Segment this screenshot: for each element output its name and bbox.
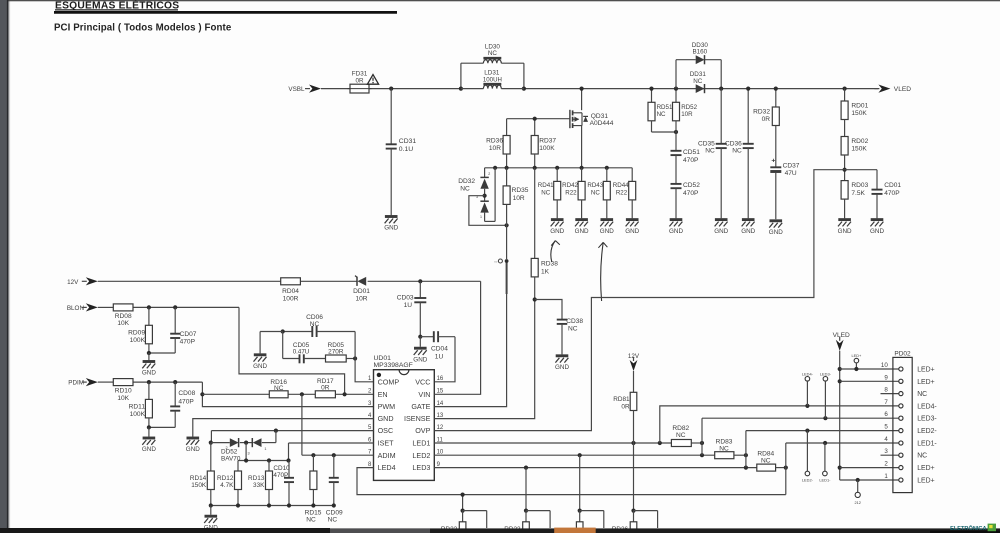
node CD03-CD04 junction [418,335,422,339]
ground GND under CD01 [871,218,884,221]
svg-text:470P: 470P [178,398,194,405]
wire 12V rail [98,280,281,282]
resistor RD84 NC [757,464,776,471]
svg-text:VLED: VLED [894,86,911,93]
svg-text:33K: 33K [253,482,265,489]
svg-text:GND: GND [870,228,884,235]
resistor RD01 150K [844,89,846,101]
capacitor CD38 NC [535,300,562,320]
svg-text:RD02: RD02 [851,138,868,145]
resistor RD23 [524,509,528,513]
svg-text:VSBL: VSBL [288,86,305,93]
svg-text:RD51: RD51 [657,104,673,111]
svg-text:RD84: RD84 [757,451,774,458]
title thick rule [54,11,397,14]
svg-text:RD08: RD08 [115,313,132,320]
wire LD31 row segments [461,88,484,90]
wire pin5 LED2- row [746,430,899,432]
svg-text:CD07: CD07 [180,331,197,338]
wire QD31 gate line [507,118,570,120]
wire LED4 route pin8 [357,468,786,495]
svg-text:GATE: GATE [411,402,430,411]
svg-text:LED3: LED3 [412,463,430,472]
svg-text:10R: 10R [489,145,501,152]
ground GND under CD03 [419,337,421,347]
orange highlight RD24 [554,528,596,533]
svg-text:CD31: CD31 [399,138,417,145]
svg-text:RD37: RD37 [539,137,556,144]
svg-text:GND: GND [142,370,156,377]
resistor RD43 NC [606,168,608,182]
svg-text:7: 7 [884,399,888,406]
node CD08 tap [173,380,177,384]
capacitor CD31 0.1U [390,89,392,145]
wire pin3 NC stub [881,454,899,456]
svg-text:RD03: RD03 [851,182,868,189]
svg-text:10: 10 [881,362,888,369]
svg-text:0R: 0R [621,403,630,410]
svg-text:1: 1 [264,447,266,451]
wire CD04 to VCC [434,337,455,382]
wire PDIM vertical to EN and PWM [202,382,373,407]
wire LED3 row pin9 [434,467,757,469]
svg-text:ELETRÔNICA: ELETRÔNICA [950,524,986,532]
node RD84 right junction [784,466,788,470]
capacitor CD09 NC [333,455,335,478]
svg-text:RD04: RD04 [282,288,299,295]
diode DD01 10R [357,277,366,286]
svg-text:RD13: RD13 [248,475,265,482]
svg-text:10R: 10R [681,111,693,118]
svg-text:RD32: RD32 [753,109,770,116]
ground GND under CD38 [556,354,569,357]
ground GND under CD52 [670,218,683,221]
wire RD11-CD08 join [149,426,175,428]
ground GND under RD41 [551,218,564,221]
wire source rail [485,167,633,169]
svg-text:10K: 10K [117,395,129,402]
svg-text:GND: GND [769,229,783,236]
resistor RD83 NC [715,452,734,459]
wire ADIM row [302,454,374,456]
svg-text:GND: GND [378,414,394,423]
resistor RD37 100K [534,119,536,136]
wire RD83 vertical link [745,431,747,468]
node COMP junction [353,356,357,360]
svg-text:ISET: ISET [378,439,395,448]
svg-text:LED2-: LED2- [802,477,814,482]
svg-text:LED4-: LED4- [917,403,937,410]
ground GND under CD37 [770,219,783,222]
wire bottom rail [211,505,334,507]
svg-text:NC: NC [693,78,703,85]
wire pin1 row [840,479,899,481]
scan left edge bar [0,0,7,533]
scan top edge line [9,0,1000,1]
svg-text:RD10: RD10 [115,388,132,395]
svg-text:PCI Principal ( Todos Modelos: PCI Principal ( Todos Modelos ) Fonte [54,22,232,33]
svg-text:RD44: RD44 [613,182,629,189]
bottom black strip [0,528,1000,533]
svg-text:470P: 470P [884,190,900,197]
svg-text:7.5K: 7.5K [851,190,865,197]
wire VSBL rail [321,88,350,90]
node EN-BLON junction [343,392,347,396]
svg-text:5: 5 [884,424,888,431]
svg-text:RD52: RD52 [681,104,697,111]
svg-text:CD51: CD51 [683,149,700,156]
connector PD02 pin 6 [899,416,903,420]
ground GND under CD31 [385,215,398,218]
svg-text:VLED: VLED [833,332,850,339]
svg-text:4.7K: 4.7K [220,482,234,489]
svg-text:NC: NC [568,325,578,332]
wire GND pin4 route [193,419,374,437]
svg-text:470P: 470P [273,472,288,479]
wire pin8 NC stub [881,393,899,395]
svg-text:VCC: VCC [415,377,430,386]
svg-text:LED1: LED1 [412,439,430,448]
wire DD52 center down [245,443,247,461]
svg-text:RD43: RD43 [587,182,603,189]
svg-text:GND: GND [253,363,267,370]
wire VIN route [434,281,480,394]
svg-text:BLON: BLON [67,305,85,312]
svg-text:NC: NC [732,148,742,155]
svg-text:CD08: CD08 [178,390,195,397]
svg-text:DD32: DD32 [458,178,475,185]
svg-text:100R: 100R [283,296,299,303]
node CD07 tap [173,305,177,309]
svg-text:1: 1 [884,473,888,480]
svg-text:CD06: CD06 [306,314,323,321]
svg-text:150K: 150K [191,482,207,489]
svg-text:150K: 150K [851,110,867,117]
annotation arrow up 1 [551,241,556,262]
svg-text:470P: 470P [683,190,699,197]
resistor RD82 NC [671,440,691,447]
ground GND under RD11 [143,437,156,440]
wire RD23 drop [525,468,527,511]
wire OSC row [211,430,373,432]
svg-text:LED4-: LED4- [802,371,814,376]
svg-text:0R: 0R [762,116,771,123]
svg-text:12V: 12V [67,279,79,286]
svg-text:RD42: RD42 [562,182,578,189]
resistor RD44 R22 [631,168,633,182]
wire ISET row [289,442,374,444]
svg-text:GND: GND [714,228,728,235]
wire RD84 vertical link [785,443,787,495]
svg-text:NC: NC [657,111,666,118]
op-amp U: IC UD01 MP3398AGF body [374,370,435,481]
svg-text:10R: 10R [355,296,367,303]
node RD16-RD17 junction [300,392,304,396]
svg-text:R22: R22 [616,189,628,196]
svg-text:1: 1 [480,215,482,219]
svg-text:NC: NC [917,453,927,460]
svg-text:CD37: CD37 [783,163,800,170]
capacitor CD04 1U [420,336,434,338]
svg-text:100K: 100K [130,337,146,344]
capacitor CD35 NC [720,89,722,144]
wire RD22 drop [462,495,464,511]
resistor RD09 100K [148,307,150,325]
wire BLON row [98,306,114,308]
test point LED+ top [854,358,859,363]
svg-text:470P: 470P [683,157,699,164]
svg-text:CD35: CD35 [698,140,715,147]
ground GND under CD36 [742,218,755,221]
svg-text:10R: 10R [513,195,525,202]
svg-text:RD12: RD12 [217,475,234,482]
svg-text:UD01: UD01 [374,355,392,362]
svg-text:NC: NC [761,458,771,465]
node CD06 left junction [281,329,285,333]
resistor RD17 0R [315,391,335,398]
connector PD02 body [893,357,912,492]
wire DD32 mid tap [469,196,507,226]
svg-text:LED4: LED4 [378,463,396,472]
resistor RD02 150K [841,137,848,156]
svg-text:NC: NC [460,186,470,193]
capacitor CD08 470P [174,382,176,406]
wire OSC corner down [210,431,212,443]
connector PD02 pin 4 [899,441,903,445]
svg-text:LED1-: LED1- [917,441,937,448]
svg-text:GND: GND [838,228,852,235]
wire pin2 row [840,467,899,469]
svg-text:CD38: CD38 [566,318,583,325]
connector PD02 pin 8 [899,392,903,396]
svg-text:RD41: RD41 [538,182,554,189]
svg-text:EN: EN [378,390,388,399]
svg-text:0R: 0R [355,77,364,84]
svg-text:CD52: CD52 [683,182,700,189]
ground GND pin4 [187,437,200,440]
svg-text:RD14: RD14 [190,475,207,482]
node RD83 right junction [744,453,748,457]
resistor RD10 10K [113,379,133,386]
resistor RD15 NC [312,455,314,471]
resistor RD35 10R [506,168,508,186]
svg-text:GND: GND [741,228,755,235]
resistor RD42 R22 [581,168,583,182]
wire COMP to pin1 [355,359,373,382]
test point LED3- [823,377,828,382]
svg-text:LED1-: LED1- [819,477,831,482]
wire pin10 row [840,368,899,370]
svg-text:CD04: CD04 [431,346,448,353]
svg-text:LED+: LED+ [917,465,934,472]
wire RD51 bottom [652,131,677,133]
resistor RD11 100K [148,382,150,399]
svg-text:NC: NC [328,516,338,523]
title thin underline [55,9,178,11]
svg-text:GND: GND [669,228,683,235]
svg-text:NC: NC [488,50,498,57]
svg-text:GND: GND [550,228,564,235]
svg-text:OSC: OSC [378,426,394,435]
capacitor CD07 470P [174,307,176,333]
wire CD06 right leg [354,332,356,359]
svg-text:GND: GND [186,446,200,453]
node RD11 tap [147,380,151,384]
svg-text:NC: NC [274,385,284,392]
node VLED output [843,87,847,91]
node RD02-RD03 junction [843,168,847,172]
resistor RD52 10R [675,89,677,103]
connector PD02 pin 5 [899,429,903,433]
capacitor CD52 470P [671,183,682,185]
ground GND under RD42 [575,218,588,221]
svg-text:2: 2 [488,172,490,176]
svg-text:0.1U: 0.1U [399,146,413,153]
svg-text:TP: TP [494,260,498,264]
svg-text:RD11: RD11 [129,404,146,411]
ground GND under RD43 [601,218,614,221]
node junction VSBL-CD31 [389,87,393,91]
svg-text:16: 16 [437,376,444,382]
svg-text:R22: R22 [565,189,577,196]
diode DD52 BAV70 [211,442,230,444]
svg-text:QD31: QD31 [591,113,609,120]
svg-text:LED3-: LED3- [917,416,937,423]
svg-text:PWM: PWM [378,402,396,411]
wire RD24 drop [579,455,581,510]
wire LED1 row pin11 [434,442,671,444]
connector PD02 pin 9 [899,379,903,383]
svg-text:0R: 0R [321,385,330,392]
resistor RD04 100R [281,278,301,285]
svg-text:LED+: LED+ [917,478,934,485]
wire OVP route [434,170,844,431]
svg-text:1U: 1U [435,353,444,360]
resistor RD51 NC [651,89,653,103]
wire BLON to EN [239,307,345,394]
svg-text:NC: NC [310,321,320,328]
node RD82 right junction [700,441,704,445]
ground GND under RD09 [143,360,156,363]
svg-text:LED2: LED2 [412,451,430,460]
wire RD09-CD07 join [149,352,175,354]
svg-text:GND: GND [142,446,156,453]
svg-text:1U: 1U [404,302,413,309]
resistor RD24 [578,509,582,513]
svg-text:GND: GND [625,228,639,235]
svg-text:NC: NC [917,391,927,398]
svg-text:MP3398AGF: MP3398AGF [374,362,413,369]
wire DD30 loop legs [675,60,677,89]
test point LED1- [823,471,828,476]
resistor RD36 10R [506,119,508,136]
svg-text:LED+: LED+ [851,353,862,358]
svg-text:PD02: PD02 [894,351,911,358]
wire CD06 to GND [260,331,283,333]
svg-text:CD01: CD01 [884,182,901,189]
svg-text:2: 2 [884,461,888,468]
svg-text:GND: GND [555,364,569,371]
svg-text:RD35: RD35 [512,187,529,194]
svg-text:RD83: RD83 [716,438,733,445]
svg-text:LED+: LED+ [917,367,934,374]
capacitor CD03 1U [419,281,421,298]
svg-text:NC: NC [719,445,729,452]
node test point on gate line [505,259,509,263]
svg-text:GND: GND [600,228,614,235]
svg-text:RD82: RD82 [672,425,689,432]
connector PD02 pin 1 [899,478,903,482]
capacitor CD36 NC [747,89,749,144]
svg-text:RD01: RD01 [851,102,868,109]
svg-text:9: 9 [884,374,888,381]
svg-text:GND: GND [575,228,589,235]
svg-text:47U: 47U [785,170,797,177]
svg-text:GND: GND [413,356,427,363]
wire ISENSE route [434,300,534,419]
wire GATE route [434,261,506,407]
svg-text:COMP: COMP [378,377,400,386]
resistor RD81 0R [633,371,635,392]
svg-text:1K: 1K [541,268,550,275]
svg-text:RD09: RD09 [128,330,145,337]
wire RD82 to RD83 vertical [701,418,703,455]
svg-text:470P: 470P [180,338,196,345]
fuse FD31 [350,84,369,93]
svg-text:NC: NC [541,189,550,196]
node CD03 tap [418,279,422,283]
resistor RD14 150K [210,443,212,471]
svg-text:RD36: RD36 [486,137,503,144]
test point LED4- [805,377,810,382]
capacitor CD01 470P [845,169,877,171]
svg-text:+: + [771,157,775,164]
svg-text:OVP: OVP [415,426,430,435]
svg-text:212: 212 [854,500,861,505]
svg-text:DD01: DD01 [353,288,370,295]
test point 212 [856,478,860,482]
transistor QD31 A0D444 [581,89,583,111]
connector PD02 pin 7 [899,404,903,408]
wire VLED vertical [839,351,841,480]
resistor RD22 [461,509,465,513]
svg-text:LED2-: LED2- [917,428,937,435]
annotation arrow up 2 [601,242,604,301]
resistor RD38 1K [534,168,536,259]
svg-text:NC: NC [705,148,715,155]
svg-text:6: 6 [884,411,888,418]
resistor RD12 4.7K [237,461,239,472]
svg-text:100UH: 100UH [483,76,502,83]
ground GND under CD35 [715,218,728,221]
node OSC-DD52 tap [274,429,278,433]
resistor RD13 33K [268,461,270,472]
node DD52 left junction [209,441,213,445]
resistor RD26 [631,509,635,513]
svg-text:ADIM: ADIM [378,451,396,460]
svg-text:NC: NC [306,516,316,523]
wire pin6 LED3- row [702,417,899,419]
svg-text:B160: B160 [692,48,707,55]
wire LED2 row pin10 [434,454,714,456]
capacitor CD51 470P [671,150,682,152]
resistor RD08 10K [113,304,133,311]
resistor RD32 0R [775,89,777,107]
svg-text:GND: GND [384,225,398,232]
ground GND left of CD05 [254,353,267,356]
resistor RD41 NC [556,168,558,182]
resistor RD16 NC [269,391,288,398]
